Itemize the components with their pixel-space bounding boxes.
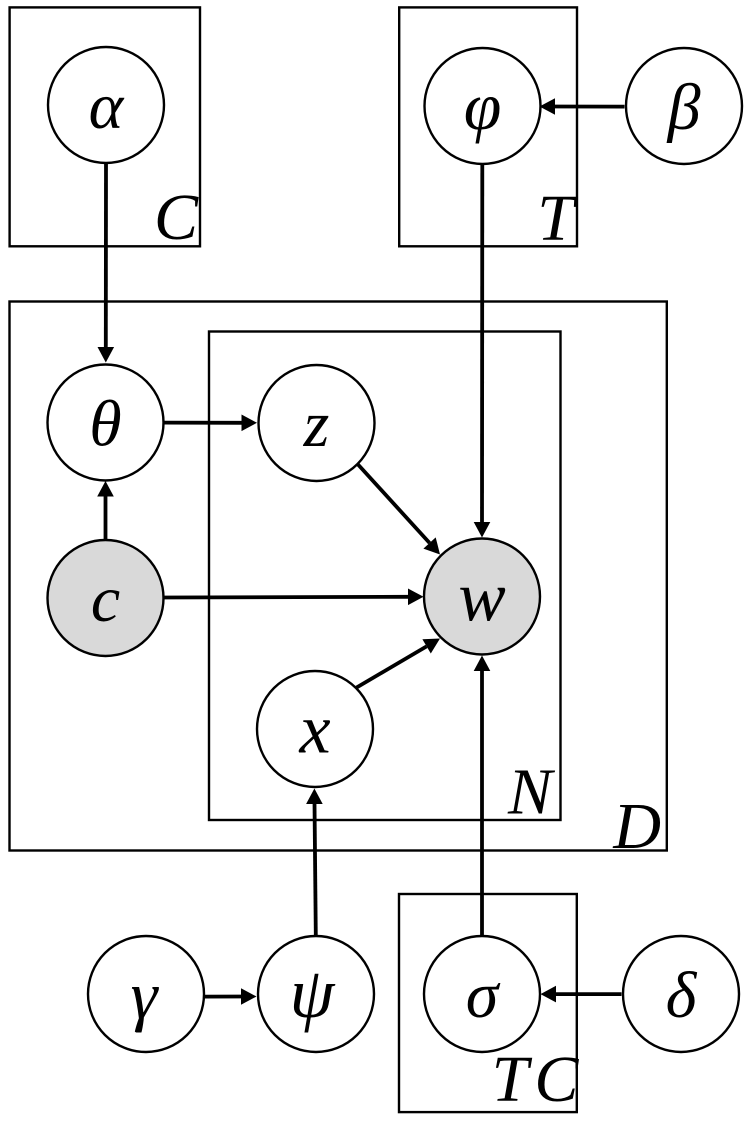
plate N <box>209 332 561 821</box>
node z circle <box>259 365 375 481</box>
wire psi to x <box>315 803 316 936</box>
arrowhead delta to sigma <box>541 986 557 1003</box>
arrowhead c to w <box>408 589 424 606</box>
svg-text:β: β <box>666 71 701 144</box>
node gamma circle <box>88 936 204 1052</box>
svg-text:w: w <box>458 559 505 637</box>
svg-text:φ: φ <box>464 68 502 144</box>
wire beta to phi <box>554 105 625 109</box>
svg-text:N: N <box>507 756 556 829</box>
svg-text:θ: θ <box>89 388 121 461</box>
node sigma circle <box>424 936 540 1052</box>
wire phi to w <box>480 164 484 523</box>
arrowhead sigma to w <box>474 656 491 672</box>
svg-text:ψ: ψ <box>290 953 336 1033</box>
svg-text:TC: TC <box>492 1043 580 1116</box>
plate D <box>10 302 667 851</box>
arrowhead c to theta <box>97 481 114 497</box>
plate TC <box>399 894 577 1112</box>
svg-text:δ: δ <box>666 959 698 1032</box>
arrowhead x to w <box>422 639 440 654</box>
arrowhead phi to w <box>474 522 491 538</box>
node w circle shaded <box>424 539 540 655</box>
node phi circle <box>425 48 541 164</box>
wire theta to z <box>164 421 243 425</box>
svg-text:α: α <box>89 70 125 143</box>
wire gamma to psi <box>204 995 242 999</box>
wire c to w <box>164 595 409 600</box>
node theta circle <box>48 365 164 481</box>
wire z to w <box>358 464 430 543</box>
arrowhead psi to x <box>306 789 323 805</box>
plate C <box>10 7 200 246</box>
svg-text:T: T <box>537 182 578 255</box>
svg-text:c: c <box>91 563 120 636</box>
svg-text:D: D <box>612 790 661 863</box>
wire delta to sigma <box>555 992 622 996</box>
svg-text:C: C <box>154 181 199 254</box>
arrowhead alpha to theta <box>98 347 115 363</box>
wire sigma to w <box>480 670 484 936</box>
svg-text:x: x <box>298 692 330 769</box>
arrowhead gamma to psi <box>241 988 257 1005</box>
svg-text:σ: σ <box>466 959 501 1032</box>
node delta circle <box>623 936 739 1052</box>
wire x to w <box>356 646 426 687</box>
arrowhead theta to z <box>242 415 258 432</box>
plate T <box>399 7 577 246</box>
wire alpha to theta <box>104 163 108 348</box>
arrowhead z to w <box>423 537 440 554</box>
node c circle shaded <box>48 540 164 656</box>
node psi circle <box>258 936 374 1052</box>
wire c to theta <box>104 496 108 540</box>
node alpha circle <box>48 47 164 163</box>
node beta circle <box>626 48 742 164</box>
arrowhead beta to phi <box>540 98 556 115</box>
svg-text:γ: γ <box>131 957 160 1033</box>
node x circle <box>257 671 373 787</box>
svg-text:z: z <box>303 388 330 461</box>
